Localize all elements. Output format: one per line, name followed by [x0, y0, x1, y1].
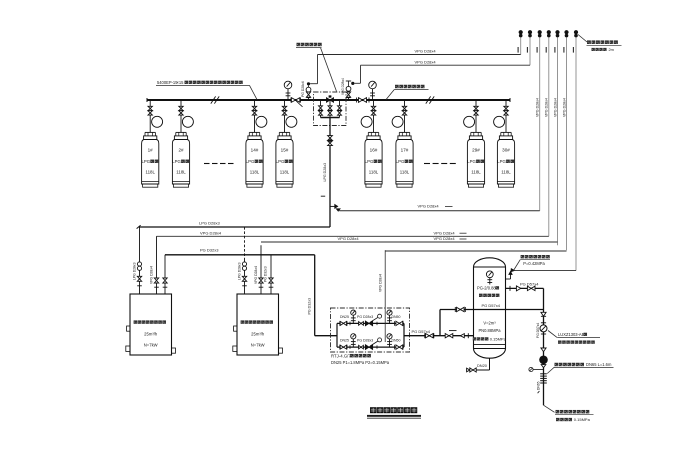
svg-text:30#: 30#: [502, 148, 510, 153]
label: manifold header pipe: [395, 85, 399, 88]
cylinder 1# drop pipe from manifold: [149, 100, 151, 106]
branch strainer valve: [349, 345, 351, 349]
vent line VPG D28x4 from vaporizer 2 to stack 5: [261, 241, 558, 243]
cylinder 29# drop pipe from manifold: [475, 100, 477, 106]
cylinder 29# pigtail coil: [464, 116, 475, 127]
cylinder 17# bottle body: [399, 131, 409, 133]
svg-text:VPG D28x4: VPG D28x4: [254, 266, 258, 284]
svg-text:25m³/h: 25m³/h: [251, 332, 265, 337]
vaporizer side/bottom nubs: [234, 326, 237, 331]
svg-text:118L: 118L: [280, 170, 290, 175]
valve with break on line to tank mid nozzle: [445, 334, 449, 338]
svg-text:DN65 L=1.6m: DN65 L=1.6m: [586, 362, 612, 367]
vaporizer side/bottom nubs: [127, 326, 130, 331]
relief valve branch left (to vent stack 1): [308, 98, 310, 100]
svg-text:PG D57x4: PG D57x4: [536, 323, 540, 338]
svg-text:PG D57x4: PG D57x4: [482, 303, 501, 308]
svg-text:DN25: DN25: [340, 315, 349, 319]
svg-text:RTJ-4.G/7: RTJ-4.G/7: [331, 353, 351, 358]
cylinder 29# bottle body: [471, 131, 481, 133]
svg-text:PG D32x3: PG D32x3: [200, 248, 219, 253]
cylinder 1# bottle body: [145, 131, 155, 133]
branch strainer valve: [349, 322, 351, 326]
svg-text:DN50: DN50: [392, 339, 401, 343]
pipe break symbol on left manifold: [211, 96, 216, 103]
vent stack 6 cap: [564, 30, 568, 34]
branch gauge 2: [387, 334, 392, 339]
svg-text:2m: 2m: [609, 47, 614, 52]
svg-text:VPG D28x4: VPG D28x4: [341, 78, 345, 95]
regulator branch line: [337, 346, 404, 348]
PG D57x4 line crossing tank to flow meter leg: [440, 309, 544, 311]
vent stack 5 cap: [555, 30, 559, 34]
cylinder 17# pigtail coil: [392, 116, 403, 127]
vent stack 4 riser: [548, 37, 550, 236]
svg-text:N=7kW: N=7kW: [144, 343, 158, 348]
vaporizer box (electric water-bath vaporizer 25m3/h N=7kW): [237, 294, 279, 355]
svg-text:VPG D28x4: VPG D28x4: [415, 48, 437, 53]
svg-text:P=0.42MPa: P=0.42MPa: [523, 261, 545, 266]
vent line from tank safety valve to stack 7: [515, 270, 576, 272]
vent stack 1 cap: [519, 30, 523, 34]
manifold header pipe (left+right banks): [147, 99, 510, 101]
svg-text:0.15MPa: 0.15MPa: [574, 417, 591, 422]
svg-text:LPG: LPG: [142, 159, 151, 164]
svg-text:DN25 P1=1.8MPa P2=0.15MPa: DN25 P1=1.8MPa P2=0.15MPa: [331, 360, 390, 365]
cylinder 1# pigtail coil: [152, 116, 163, 127]
svg-text:15#: 15#: [281, 148, 289, 153]
ellipsis dashes between cylinders 2 and 14: [204, 163, 210, 165]
vent stack 2 riser: [529, 37, 531, 65]
vent stack 1 break mark: [517, 47, 519, 53]
regulator manifold bars: [336, 323, 338, 347]
svg-text:VPG D28x4: VPG D28x4: [338, 236, 360, 241]
svg-text:LPG: LPG: [467, 159, 476, 164]
branch gauge 1: [351, 310, 356, 315]
svg-text:VPG D28x4: VPG D28x4: [562, 98, 566, 117]
cylinder 16# drop pipe from manifold: [373, 100, 375, 106]
pipe break symbol on right manifold: [426, 96, 431, 103]
label: manifold valve box: [297, 43, 301, 46]
svg-text:LPG: LPG: [246, 159, 255, 164]
svg-text:PG D28x3: PG D28x3: [357, 339, 373, 343]
vent stack 7 break mark: [572, 47, 574, 53]
vent stack 4 break mark: [545, 47, 547, 53]
svg-text:LPG D28x3: LPG D28x3: [237, 262, 241, 280]
propane buffer tank PG-2/0.88 (vertical vessel): [474, 258, 506, 358]
label: rain-proof flame arrestor vent cap, 2m above roof: [578, 35, 587, 43]
globe valve on right manifold: [356, 98, 358, 103]
vent header A from manifold left relief valve to stack 1: [318, 54, 521, 56]
svg-text:PG D57x4: PG D57x4: [520, 282, 539, 287]
svg-text:29#: 29#: [472, 148, 480, 153]
tank safety valve: [506, 278, 511, 280]
svg-text:LPG D28x3: LPG D28x3: [199, 220, 220, 225]
pressure regulator box (dash-dot enclosure): [331, 308, 410, 352]
svg-text:VPG D28x4: VPG D28x4: [553, 98, 557, 117]
svg-text:118L: 118L: [250, 170, 260, 175]
cylinder 15# drop pipe from manifold: [284, 100, 286, 106]
vent stack 2 break mark: [526, 47, 528, 53]
ball valve (filled) on leg: [541, 348, 546, 352]
pressure regulator (filled): [365, 345, 369, 350]
vaporizer 2 VPG vent stub: [260, 245, 262, 294]
vent stack 3 cap: [538, 30, 542, 34]
collector pipe inside valve box: [321, 117, 340, 119]
cylinder 14# pigtail coil: [256, 116, 267, 127]
pressure regulator (filled): [365, 321, 369, 326]
svg-text:118L: 118L: [176, 170, 186, 175]
three changeover legs inside valve box: [320, 100, 322, 118]
svg-text:16#: 16#: [370, 148, 378, 153]
svg-text:LPG D28x3: LPG D28x3: [132, 262, 136, 280]
svg-text:118L: 118L: [501, 170, 511, 175]
cylinder 30# drop pipe from manifold: [505, 100, 507, 106]
svg-text:VPG D28x4: VPG D28x4: [415, 59, 437, 64]
vaporizer 2 LPG feed stub with valves: [244, 227, 246, 258]
svg-text:LPG: LPG: [497, 159, 506, 164]
cylinder 30# double valve: [504, 106, 508, 108]
cylinder 14# drop pipe from manifold: [254, 100, 256, 106]
cylinder 15# pigtail coil: [286, 116, 297, 127]
svg-text:LPG: LPG: [172, 159, 181, 164]
cylinder 2# double valve: [179, 106, 183, 108]
vent line VPG D28x4 from LPG riser tap to stack 3: [340, 210, 540, 212]
pressure gauge on left manifold: [284, 81, 292, 89]
svg-text:VPG D28x4: VPG D28x4: [150, 266, 154, 284]
branch inlet valve DN25: [339, 345, 341, 350]
cylinder 14# bottle body: [249, 131, 259, 133]
cylinder 1# double valve: [148, 106, 152, 108]
svg-text:×15: ×15: [177, 80, 185, 85]
vent stack 3 riser: [539, 37, 541, 211]
LPG D28x3 header from riser to vaporizers: [139, 226, 330, 228]
vaporizer 1 LPG feed stub with valves: [139, 227, 141, 294]
svg-text:118L: 118L: [145, 170, 155, 175]
svg-text:PN0.88MPa: PN0.88MPa: [478, 328, 501, 333]
svg-text:118L: 118L: [369, 170, 379, 175]
svg-text:5400EP-15: 5400EP-15: [157, 80, 178, 85]
regulator branch line: [337, 322, 404, 324]
cylinder 30# bottle body: [501, 131, 511, 133]
cylinder 17# drop pipe from manifold: [404, 100, 406, 106]
cylinder 17# double valve: [402, 106, 406, 108]
svg-text:LPG D28x3: LPG D28x3: [323, 163, 327, 182]
svg-text:LPG: LPG: [276, 159, 285, 164]
svg-text:PG D28x3: PG D28x3: [357, 315, 373, 319]
branch gauge 2: [387, 310, 392, 315]
ellipsis dashes between cylinders 17 and 29: [424, 163, 430, 165]
pressure gauge on right manifold: [369, 81, 377, 89]
cylinder 16# double valve: [371, 106, 375, 108]
relief valve branch right (to vent stack 2): [348, 98, 350, 100]
svg-text:118L: 118L: [471, 170, 481, 175]
label: safety valve opening pressure P=0.42MPa: [521, 255, 525, 258]
valve pair on LPG riser below box: [328, 136, 333, 138]
stainless flexible metal hose DN65 L=1.6m: [540, 373, 547, 375]
vent stack 2 cap: [528, 30, 532, 34]
cylinder 2# bottle body: [176, 131, 186, 133]
vertical supply leg with flow meter: [543, 288, 545, 405]
svg-text:DN20: DN20: [477, 363, 488, 368]
svg-text:V=2m³: V=2m³: [483, 321, 496, 326]
globe valve on left manifold: [290, 98, 292, 103]
vent stack 6 riser: [566, 37, 568, 250]
svg-text:2#: 2#: [178, 148, 184, 153]
svg-text:VPG D28x4: VPG D28x4: [418, 204, 440, 209]
vent tap from LPG riser to stack-3 line: [330, 205, 335, 207]
PG down leg to regulator box: [314, 255, 316, 336]
svg-text:118L: 118L: [400, 170, 410, 175]
tank level gauge: [486, 271, 493, 278]
svg-text:1#: 1#: [148, 148, 154, 153]
break mark on LPG riser: [321, 195, 325, 197]
tank vapor outlet nozzle PG D57x4: [506, 287, 544, 289]
vent stack 5 riser: [557, 37, 559, 245]
valve on tank top inlet line: [454, 307, 456, 312]
cylinder 16# pigtail coil: [361, 116, 372, 127]
svg-text:17#: 17#: [401, 148, 409, 153]
LPG riser leaving valve box: [329, 118, 331, 136]
branch outlet valve DN50: [394, 321, 396, 326]
cylinder 15# bottle body: [279, 131, 289, 133]
cylinder 30# pigtail coil: [494, 116, 505, 127]
pressure gauge tap beside hose: [533, 369, 543, 371]
svg-text:VPG D28x4: VPG D28x4: [434, 231, 456, 236]
vent stack 6 break mark: [563, 47, 565, 53]
tank drain DN20: [489, 358, 491, 370]
svg-text:LUXZ1303-AB1: LUXZ1303-AB1: [558, 332, 587, 337]
branch gauge 1: [351, 334, 356, 339]
svg-text:0.15MPa: 0.15MPa: [490, 337, 507, 342]
check valve on leg: [541, 312, 546, 316]
vent line VPG D28x4 from regulator box to stack 6: [385, 250, 566, 252]
svg-text:DN25: DN25: [340, 339, 349, 343]
label: LUXZ1303-AB1 smart swirl flow meter: [548, 331, 557, 338]
vaporizer 1 VPG vent stub: [156, 236, 158, 294]
svg-text:VPG D28x4: VPG D28x4: [379, 274, 383, 292]
cylinder 15# double valve: [282, 106, 286, 108]
cylinder 2# drop pipe from manifold: [180, 100, 182, 106]
vent stack 7 riser: [575, 37, 577, 270]
valve on manifold at box center: [327, 98, 331, 102]
vent stack 4 cap: [547, 30, 551, 34]
vent stack 5 break mark: [554, 47, 556, 53]
svg-text:PG-2/0.88: PG-2/0.88: [477, 286, 496, 291]
check valve to tank mid nozzle: [460, 334, 464, 338]
svg-text:LPG: LPG: [396, 159, 405, 164]
vent header B from manifold right relief valve to stack 2: [361, 64, 531, 66]
cylinder 29# double valve: [474, 106, 478, 108]
svg-text:25m³/h: 25m³/h: [144, 332, 158, 337]
svg-text:PG D32x3: PG D32x3: [264, 266, 268, 282]
svg-text:N=7kW: N=7kW: [251, 343, 265, 348]
svg-text:DN50: DN50: [392, 315, 401, 319]
flow meter LUXZ1303-AB1 (swirl meter): [541, 322, 546, 324]
PG D32x3 gas header from vaporizers: [165, 254, 315, 256]
svg-text:VPG D28x4: VPG D28x4: [536, 98, 540, 117]
svg-text:DN65: DN65: [536, 381, 540, 390]
label: to plant propane pipeline, supply pressure 0.15MPa: [544, 405, 555, 412]
cylinder 16# bottle body: [368, 131, 378, 133]
vaporizer 2 PG outlet stub: [270, 255, 272, 294]
svg-text:VPG D28x4: VPG D28x4: [200, 231, 222, 236]
vent line VPG D28x4 from vaporizer 1 to stack 4: [157, 235, 549, 237]
drawing title: propane supply system diagram: [370, 407, 376, 413]
vent stack 3 break mark: [536, 47, 538, 53]
svg-text:14#: 14#: [251, 148, 259, 153]
relief riser from regulator box to vent line: [384, 250, 386, 342]
svg-text:PG D28x4: PG D28x4: [301, 81, 305, 97]
vent stack 1 riser: [520, 37, 522, 54]
svg-text:VPG D28x4: VPG D28x4: [545, 98, 549, 117]
branch outlet valve DN50: [394, 345, 396, 350]
label: stainless metal hose DN65 L=1.6m: [547, 367, 554, 374]
riser to tank top inlet line: [439, 310, 441, 336]
vaporizer box (electric water-bath vaporizer 25m3/h N=7kW): [130, 294, 172, 355]
outlet valve: [424, 333, 426, 338]
PG D57x4 outlet line from regulator box: [404, 335, 474, 337]
cylinder 14# double valve: [252, 106, 256, 108]
svg-text:VPG D28x4: VPG D28x4: [434, 236, 456, 241]
svg-text:PG D57x4: PG D57x4: [412, 329, 431, 334]
vent stack 7 cap: [574, 30, 578, 34]
cylinder 2# pigtail coil: [182, 116, 193, 127]
manifold valve box (dash-dot enclosure): [314, 92, 347, 126]
svg-text:PG D32x3: PG D32x3: [308, 298, 312, 315]
vaporizer 1 PG outlet stub: [164, 255, 166, 294]
svg-text:LPG: LPG: [365, 159, 374, 164]
branch inlet valve DN25: [339, 321, 341, 326]
